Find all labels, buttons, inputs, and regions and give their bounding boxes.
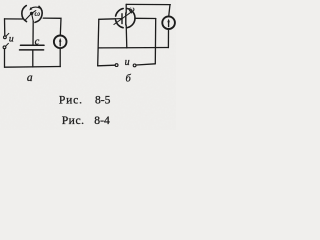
circuit b : top wire bbox=[126, 3, 170, 5]
middle horizontal wire (circuit b) bbox=[98, 47, 168, 49]
variable capacitor right plate bbox=[125, 13, 127, 25]
wire from right plate top up to top wire bbox=[125, 4, 127, 13]
rotation arrow arc bbox=[31, 7, 41, 8]
wire into left plate bbox=[115, 18, 122, 20]
circuit b : bottom wire right segment bbox=[136, 64, 155, 65]
svg-text:Рис.: Рис. bbox=[59, 94, 83, 107]
circuit a : top-left horizontal wire bbox=[5, 18, 23, 20]
circuit b : wire from circle right side to right vertical bbox=[135, 17, 156, 19]
circuit b : left vertical wire bbox=[98, 19, 99, 66]
circuit a : left vertical wire upper segment bbox=[4, 19, 6, 36]
spoke down to capacitor branch bbox=[32, 13, 34, 21]
wire below capacitor bbox=[32, 51, 34, 68]
capacitor C top plate bbox=[21, 44, 45, 46]
circuit b : top-left horizontal wire bbox=[99, 18, 116, 21]
caption Ris. 8-5 bbox=[59, 94, 111, 107]
terminal (plug) upper of input u bbox=[4, 36, 7, 39]
svg-text:а: а bbox=[27, 72, 33, 84]
rotating machine M1 hub dot bbox=[30, 12, 33, 15]
svg-text:8-5: 8-5 bbox=[95, 94, 111, 107]
capacitor C bottom plate bbox=[20, 49, 44, 51]
rotation arrowhead bbox=[29, 7, 32, 10]
variable capacitor left plate bbox=[121, 14, 123, 24]
rotating machine M1 right arc bbox=[35, 6, 42, 22]
variable arrow through capacitor bbox=[114, 12, 131, 24]
ammeter U1 circle (circuit a) bbox=[54, 36, 67, 49]
circuit b : right-top vertical to ammeter bbox=[169, 5, 170, 17]
circuit a : bottom wire bbox=[5, 66, 61, 69]
circuit a : right vertical wire bottom segment bbox=[59, 48, 61, 67]
svg-text:8-4: 8-4 bbox=[94, 114, 110, 127]
paper grain bbox=[0, 0, 176, 130]
caption Ris. 8-4 bbox=[62, 114, 110, 127]
terminal left of input u (circuit b) bbox=[115, 64, 118, 67]
svg-text:ω: ω bbox=[129, 5, 135, 14]
circuit a : right vertical wire top segment bbox=[43, 18, 61, 35]
ammeter U1 arrow bbox=[59, 40, 61, 46]
ammeter U2 circle (circuit b) bbox=[162, 16, 175, 29]
circuit b : bottom wire left segment bbox=[98, 64, 115, 67]
svg-text:u: u bbox=[9, 33, 14, 44]
wire from right plate bottom down to middle wire bbox=[125, 25, 128, 48]
ammeter U2 arrow bbox=[168, 21, 170, 27]
svg-text:б: б bbox=[126, 73, 132, 84]
svg-text:Рис.: Рис. bbox=[62, 114, 85, 127]
circuit a : left vertical wire lower segment bbox=[4, 49, 6, 67]
spoke to left wire bbox=[26, 13, 32, 19]
variable capacitor circle (circuit b) arcs bbox=[116, 9, 124, 17]
wire from machine down to capacitor C bbox=[32, 21, 34, 44]
svg-text:ω: ω bbox=[34, 9, 40, 18]
terminal (plug) lower of input u bbox=[3, 46, 6, 49]
svg-text:u: u bbox=[125, 57, 130, 68]
terminal right of input u (circuit b) bbox=[133, 64, 136, 67]
spoke up-right bbox=[32, 11, 36, 14]
wire below ammeter U2 bbox=[167, 29, 169, 48]
circuit b : right vertical wire bbox=[154, 19, 156, 64]
rotating machine M1 (circuit a) left arc bbox=[22, 6, 27, 22]
svg-text:c: c bbox=[35, 37, 40, 48]
